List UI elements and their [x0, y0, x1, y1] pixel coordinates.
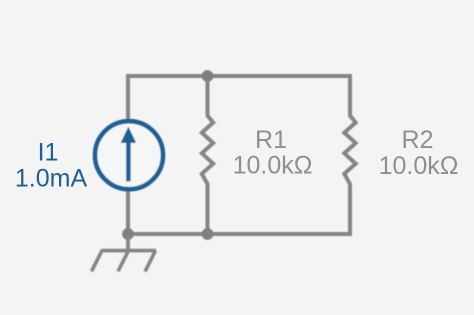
current source I1 (arrow up): [95, 121, 163, 189]
svg-text:10.0kΩ: 10.0kΩ: [233, 152, 313, 180]
node junction dot: bottom net at R1: [202, 228, 214, 240]
node junction dot: top net at R1: [202, 70, 214, 82]
svg-text:R1: R1: [255, 126, 287, 154]
svg-text:1.0mA: 1.0mA: [15, 164, 88, 192]
ground: [92, 234, 157, 272]
resistor R2: [344, 74, 355, 236]
wire I1 bottom lead: [126, 188, 130, 236]
wire bottom net (I1- to R1/R2 bottoms): [128, 232, 350, 236]
node junction dot: bottom net at I1/ground: [122, 228, 134, 240]
resistor R1: [202, 74, 213, 236]
svg-text:I1: I1: [38, 139, 59, 167]
wire I1 top lead: [126, 74, 130, 122]
svg-text:10.0kΩ: 10.0kΩ: [379, 152, 459, 180]
svg-text:R2: R2: [402, 126, 434, 154]
wire top net (I1+ to R1/R2 tops): [128, 74, 350, 78]
